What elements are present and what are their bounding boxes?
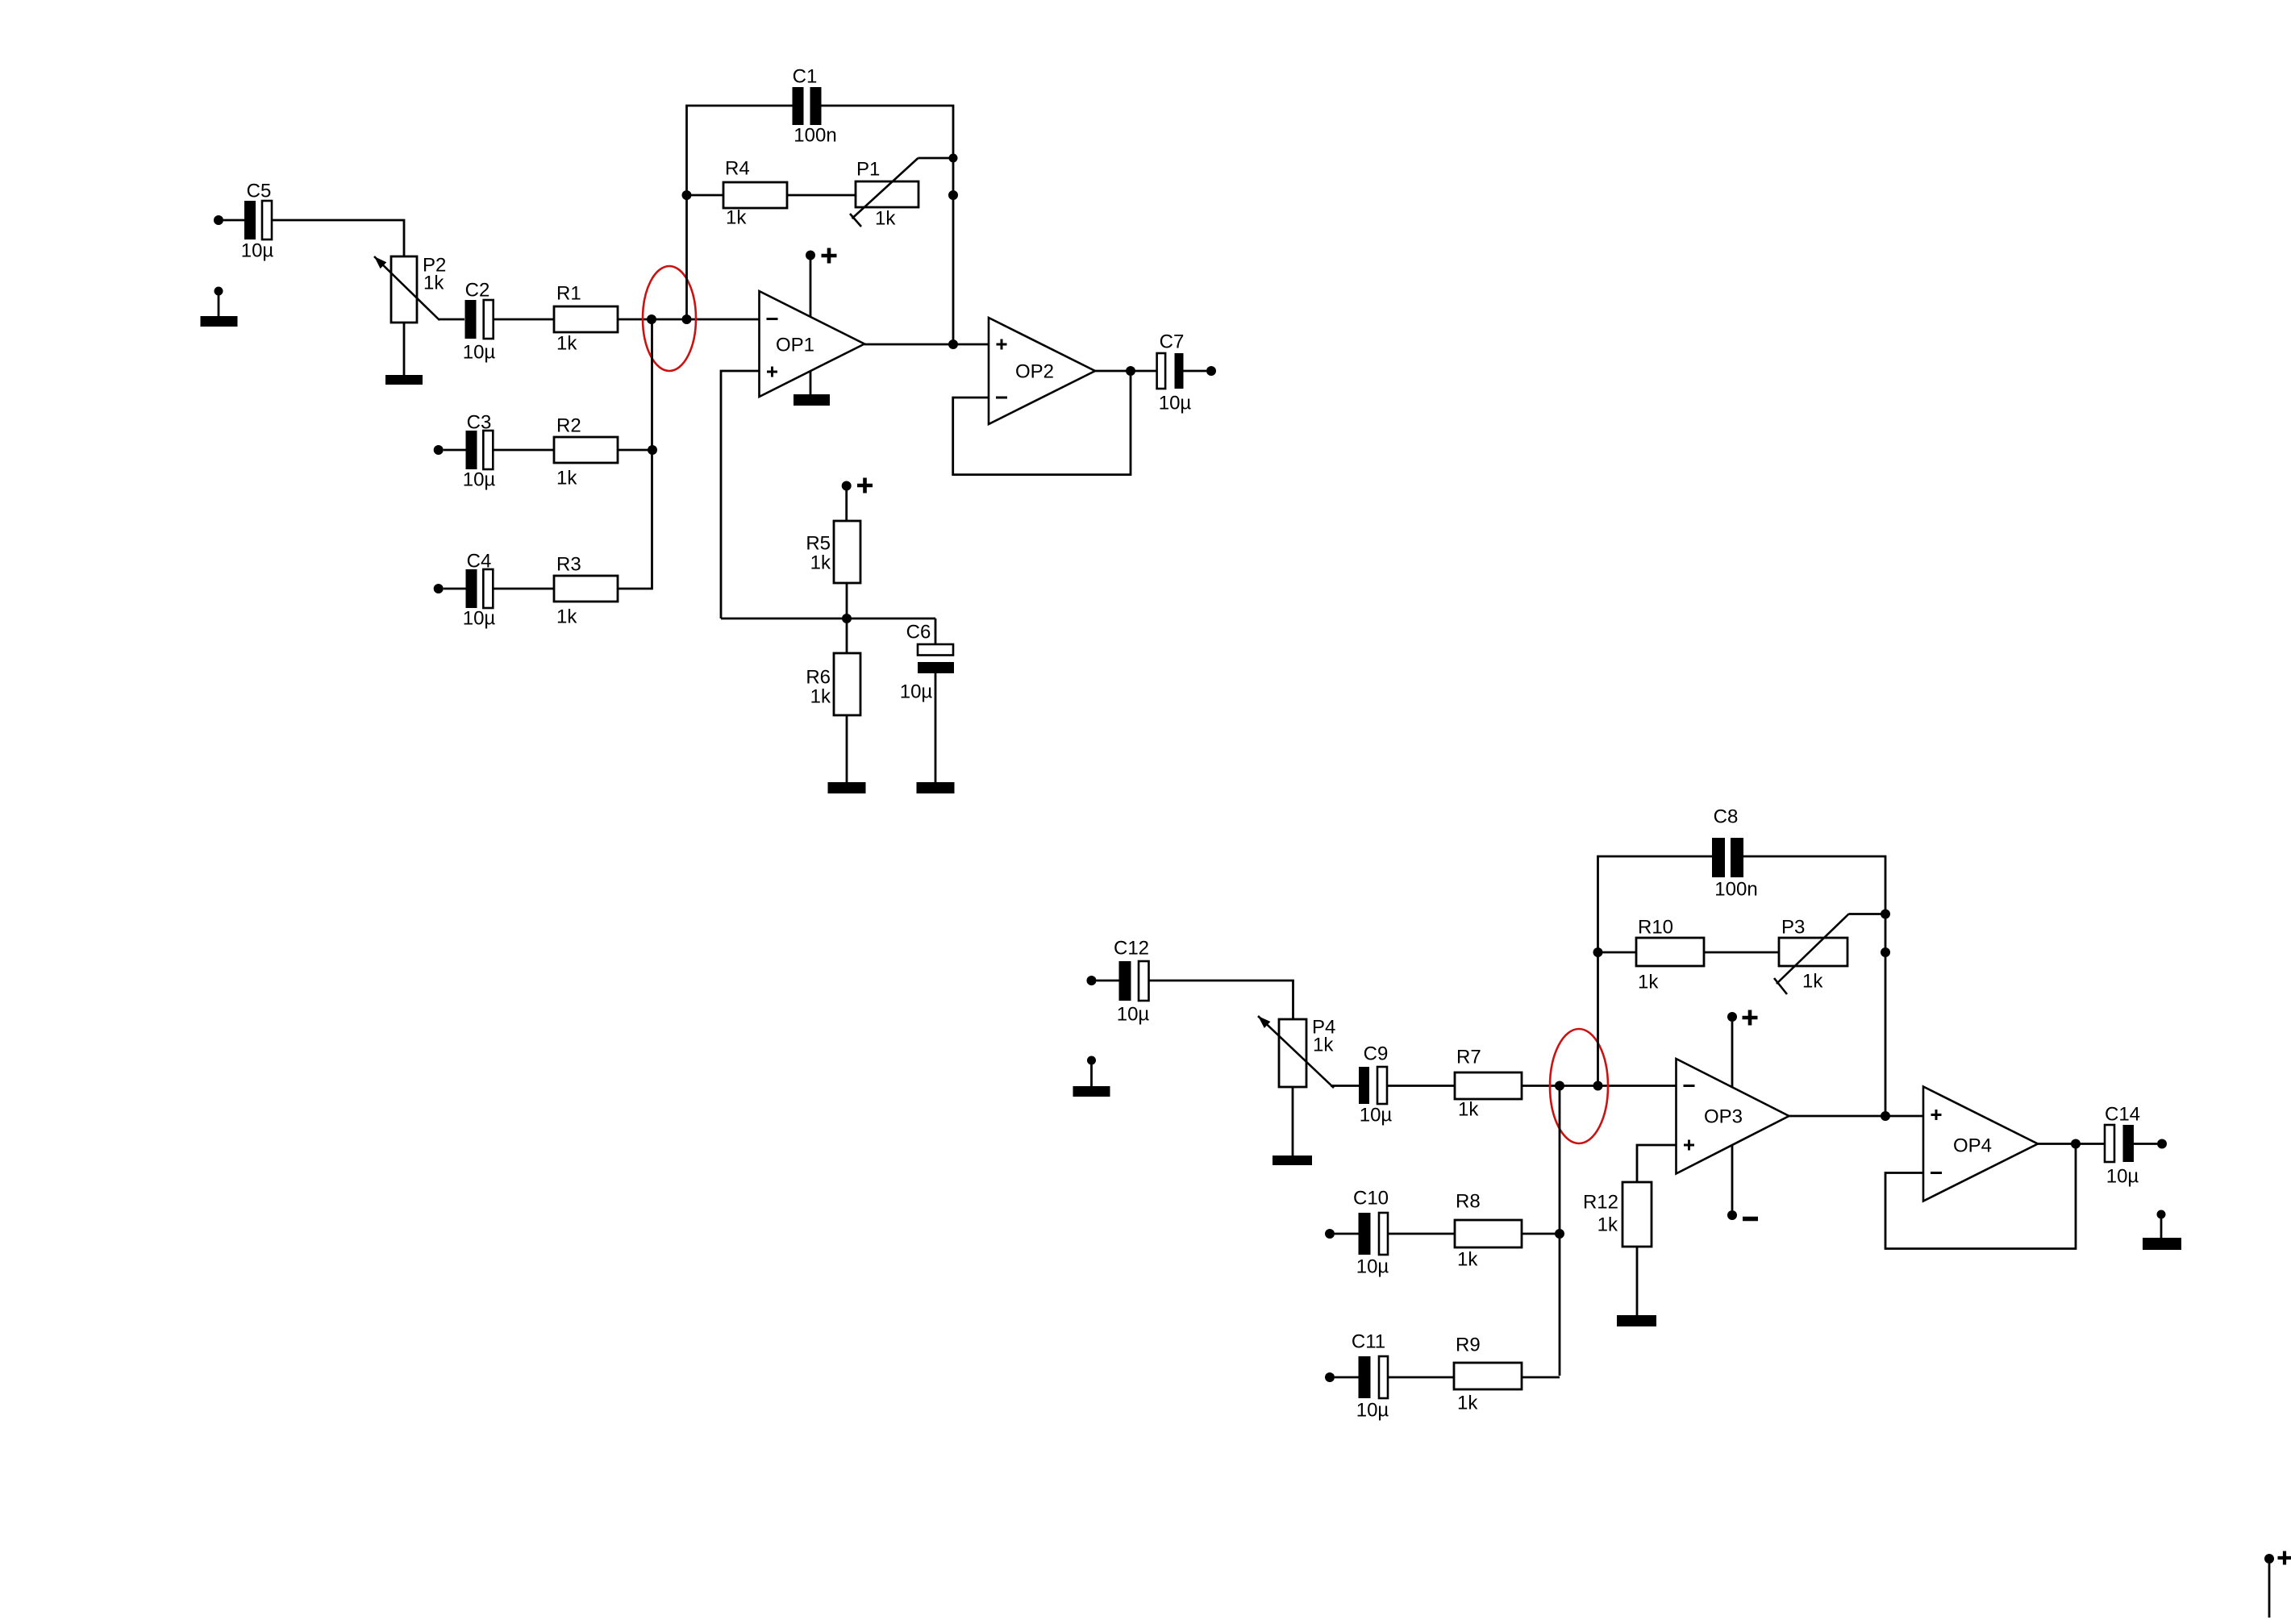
node summing junction	[1555, 1081, 1564, 1091]
svg-text:C3: C3	[467, 412, 492, 434]
wire junction to C6	[935, 618, 937, 644]
svg-text:R12: R12	[1583, 1192, 1618, 1214]
node OP4 output junction	[2071, 1139, 2081, 1149]
capacitor C3	[463, 412, 496, 491]
svg-text:C12: C12	[1114, 938, 1149, 960]
svg-text:1k: 1k	[1458, 1099, 1479, 1121]
wire P4 wiper to C9	[1331, 1085, 1359, 1087]
power plus OP3	[1743, 1010, 1758, 1026]
node P3 wiper junction	[1881, 910, 1890, 919]
svg-text:R3: R3	[556, 554, 581, 576]
node ground terminal	[215, 287, 223, 296]
svg-text:C8: C8	[1714, 806, 1739, 828]
svg-text:10µ: 10µ	[900, 681, 933, 703]
wire inverting node to C1	[687, 106, 794, 319]
svg-text:C4: C4	[467, 551, 492, 573]
wire C11 to R9	[1388, 1376, 1454, 1379]
svg-text:100n: 100n	[1714, 879, 1757, 901]
node output terminal	[2157, 1139, 2167, 1149]
wire P3 wiper to feedback	[1849, 913, 1885, 915]
svg-text:10µ: 10µ	[1117, 1004, 1150, 1026]
svg-text:OP1: OP1	[776, 335, 814, 356]
node C4 input terminal	[434, 584, 444, 593]
capacitor C9	[1359, 1043, 1392, 1126]
svg-text:1k: 1k	[810, 686, 831, 708]
capacitor C8	[1712, 806, 1758, 901]
node C12 input terminal	[1087, 976, 1097, 985]
capacitor C10	[1353, 1188, 1389, 1278]
wire C7 to output terminal	[1184, 370, 1207, 373]
node positive supply terminal	[842, 481, 852, 491]
svg-text:R6: R6	[806, 667, 831, 689]
resistor R8	[1455, 1191, 1522, 1271]
ground	[1273, 1156, 1312, 1165]
wire R4 to P1	[787, 194, 856, 197]
node ground terminal	[2157, 1210, 2166, 1219]
wire OP2 feedback loop	[953, 371, 1131, 475]
svg-text:R1: R1	[556, 283, 581, 305]
wire OP3 output to OP4	[1789, 1115, 1924, 1118]
resistor R10	[1636, 917, 1704, 993]
wire	[1335, 1233, 1359, 1235]
svg-text:10µ: 10µ	[1360, 1105, 1393, 1126]
wire bias to OP1 noninverting input	[721, 371, 760, 618]
svg-text:OP3: OP3	[1704, 1106, 1743, 1128]
wire to ground	[2160, 1218, 2163, 1238]
svg-text:1k: 1k	[556, 468, 577, 489]
wire C4 to R3	[493, 588, 554, 590]
capacitor C2	[463, 280, 496, 364]
wire bias junction horizontal	[721, 618, 935, 620]
node OP3 output junction	[1881, 1111, 1890, 1121]
capacitor C14	[2105, 1104, 2140, 1188]
wire R1 to OP1 inverting input	[618, 319, 760, 321]
potentiometer P2	[374, 256, 439, 323]
svg-text:1k: 1k	[810, 552, 831, 574]
ground	[1073, 1086, 1110, 1097]
power plus OP1	[822, 248, 837, 264]
wire	[1335, 1376, 1359, 1379]
svg-text:1k: 1k	[423, 273, 444, 294]
svg-text:P1: P1	[856, 159, 880, 181]
resistor R6	[806, 653, 860, 715]
svg-text:P3: P3	[1781, 917, 1805, 939]
node feedback junction	[1593, 1081, 1603, 1091]
wire inverting node to C8	[1598, 856, 1714, 1086]
svg-text:OP2: OP2	[1015, 361, 1054, 383]
svg-text:100n: 100n	[794, 125, 836, 147]
wire C6 to ground	[935, 673, 937, 782]
wire OP3 bottom to negative supply	[1731, 1145, 1734, 1210]
resistor R1	[554, 283, 618, 355]
capacitor C1	[793, 66, 837, 147]
op-amp OP2	[989, 318, 1095, 424]
wire C8 to output node	[1743, 856, 1885, 1116]
svg-text:10µ: 10µ	[241, 240, 274, 262]
svg-text:1k: 1k	[1313, 1035, 1334, 1056]
capacitor C5	[241, 181, 274, 262]
wire C9 to R7	[1387, 1085, 1455, 1087]
node R10 left junction	[1593, 947, 1603, 957]
node P3 right junction	[1881, 947, 1890, 957]
wire supply to OP3 top	[1731, 1022, 1734, 1087]
wire R10 to P3	[1704, 951, 1779, 954]
svg-text:10µ: 10µ	[463, 342, 496, 364]
ground	[385, 375, 423, 385]
wire C5 to P2	[272, 220, 404, 256]
wire OP1 output to OP2	[864, 344, 989, 346]
wire P4 to ground	[1292, 1087, 1294, 1156]
op-amp OP3	[1677, 1059, 1789, 1174]
svg-text:1k: 1k	[556, 333, 577, 355]
svg-text:R2: R2	[556, 415, 581, 437]
potentiometer P3	[1774, 914, 1849, 994]
wire C1 to output node	[821, 106, 953, 344]
svg-text:C14: C14	[2105, 1104, 2140, 1126]
wire summing bus	[1559, 1086, 1561, 1376]
ground	[1617, 1315, 1656, 1326]
capacitor C6	[900, 622, 954, 703]
svg-text:1k: 1k	[1597, 1214, 1618, 1236]
node C3 input terminal	[434, 445, 444, 455]
wire R9 to bus	[1522, 1376, 1560, 1379]
node OP2 output junction	[1126, 366, 1135, 376]
wire OP1 bottom to supply bar	[810, 372, 812, 395]
op-amp OP4	[1923, 1087, 2038, 1201]
wire	[223, 219, 244, 222]
wire junction to R6	[846, 618, 848, 653]
node R8 junction	[1555, 1229, 1564, 1239]
node OP3 negative supply	[1727, 1210, 1737, 1220]
wire supply to R5	[845, 490, 848, 521]
ground	[2143, 1238, 2181, 1250]
wire C2 to R1	[493, 319, 554, 321]
wire to ground	[218, 295, 220, 316]
svg-text:C5: C5	[247, 181, 272, 202]
node C10 input terminal	[1325, 1229, 1335, 1239]
ground	[201, 316, 238, 327]
node positive supply terminal	[2264, 1554, 2274, 1564]
resistor R7	[1455, 1047, 1522, 1121]
capacitor C12	[1114, 938, 1149, 1026]
node summing junction	[647, 314, 656, 324]
node ground terminal	[1087, 1056, 1096, 1065]
resistor R5	[806, 521, 860, 583]
wire OP3 noninverting input to R12	[1637, 1145, 1677, 1182]
node OP1 output junction	[948, 339, 958, 349]
svg-text:1k: 1k	[1802, 971, 1823, 993]
wire C10 to R8	[1388, 1233, 1455, 1235]
svg-text:10µ: 10µ	[1356, 1400, 1389, 1422]
svg-text:10µ: 10µ	[1159, 393, 1192, 414]
power plus R5	[857, 478, 873, 493]
svg-text:C6: C6	[906, 622, 931, 643]
wire to ground	[1090, 1064, 1093, 1086]
svg-text:C2: C2	[465, 280, 490, 302]
wire R8 to bus	[1522, 1233, 1560, 1235]
negative supply bar OP1	[794, 394, 830, 406]
resistor R2	[554, 415, 618, 489]
wire OP2 output	[1095, 370, 1157, 373]
wire R6 to ground	[846, 716, 848, 782]
potentiometer P1	[850, 158, 918, 227]
wire R2 to bus	[618, 449, 652, 452]
wire R7 to OP3 inverting input	[1522, 1085, 1677, 1087]
resistor R3	[554, 554, 618, 628]
resistor R4	[723, 158, 787, 229]
wire C3 to R2	[493, 449, 554, 452]
node output terminal	[1206, 366, 1216, 376]
svg-text:OP4: OP4	[1953, 1135, 1992, 1157]
svg-text:1k: 1k	[1638, 972, 1659, 993]
wire OP4 feedback loop	[1885, 1144, 2076, 1249]
wire	[444, 588, 466, 590]
svg-text:1k: 1k	[1457, 1249, 1478, 1271]
svg-text:1k: 1k	[875, 208, 896, 230]
svg-text:1k: 1k	[556, 606, 577, 628]
wire to R10	[1598, 951, 1637, 954]
wire R12 to ground	[1636, 1247, 1639, 1315]
svg-text:R5: R5	[806, 533, 831, 555]
node OP1 positive supply	[806, 251, 815, 260]
node P1 wiper junction	[949, 154, 958, 163]
svg-text:C7: C7	[1160, 331, 1185, 353]
op-amp OP1	[760, 291, 865, 397]
svg-text:C1: C1	[793, 66, 818, 88]
node C11 input terminal	[1325, 1372, 1335, 1382]
svg-text:10µ: 10µ	[1356, 1256, 1389, 1278]
node OP3 positive supply	[1727, 1012, 1737, 1022]
svg-text:10µ: 10µ	[463, 469, 496, 491]
svg-text:C10: C10	[1353, 1188, 1389, 1210]
ground	[917, 782, 955, 793]
ground	[828, 782, 866, 793]
wire R5 to junction	[846, 583, 848, 618]
node C5 input terminal	[214, 215, 223, 225]
annotation red ellipse	[643, 266, 696, 371]
wire P1 wiper to feedback	[918, 157, 954, 160]
svg-text:10µ: 10µ	[2106, 1166, 2139, 1188]
capacitor C4	[463, 551, 496, 630]
resistor R12	[1583, 1182, 1652, 1247]
svg-text:R7: R7	[1456, 1047, 1481, 1068]
svg-text:R9: R9	[1456, 1335, 1481, 1356]
svg-text:1k: 1k	[726, 207, 747, 229]
svg-text:R10: R10	[1638, 917, 1673, 939]
wire R3 to summing bus	[618, 319, 652, 589]
capacitor C7	[1157, 331, 1192, 414]
node feedback junction	[682, 314, 692, 324]
svg-text:C9: C9	[1364, 1043, 1389, 1065]
capacitor C11	[1352, 1331, 1389, 1422]
power plus bottom	[2278, 1551, 2291, 1565]
potentiometer P4	[1258, 1016, 1334, 1088]
resistor R9	[1454, 1335, 1522, 1414]
svg-text:10µ: 10µ	[463, 608, 496, 630]
wire	[444, 449, 466, 452]
svg-text:R8: R8	[1456, 1191, 1481, 1213]
wire P2 wiper to C2	[439, 319, 464, 321]
node R4 left junction	[682, 190, 692, 200]
svg-text:C11: C11	[1352, 1331, 1385, 1353]
wire supply to OP1 top	[810, 260, 812, 317]
node R2 junction	[648, 445, 657, 455]
wire to R4	[687, 194, 724, 197]
svg-text:R4: R4	[725, 158, 750, 180]
annotation red ellipse	[1550, 1029, 1608, 1143]
wire	[1097, 980, 1119, 982]
wire P2 to ground	[403, 323, 406, 375]
wire OP4 output	[2038, 1143, 2105, 1145]
power minus OP3	[1743, 1217, 1758, 1222]
node bias junction	[842, 614, 852, 623]
node P1 right junction	[948, 190, 958, 200]
svg-text:1k: 1k	[1457, 1393, 1478, 1414]
wire C14 to output terminal	[2134, 1143, 2157, 1145]
wire supply stub	[2268, 1564, 2271, 1618]
wire C12 to P4	[1149, 981, 1293, 1019]
